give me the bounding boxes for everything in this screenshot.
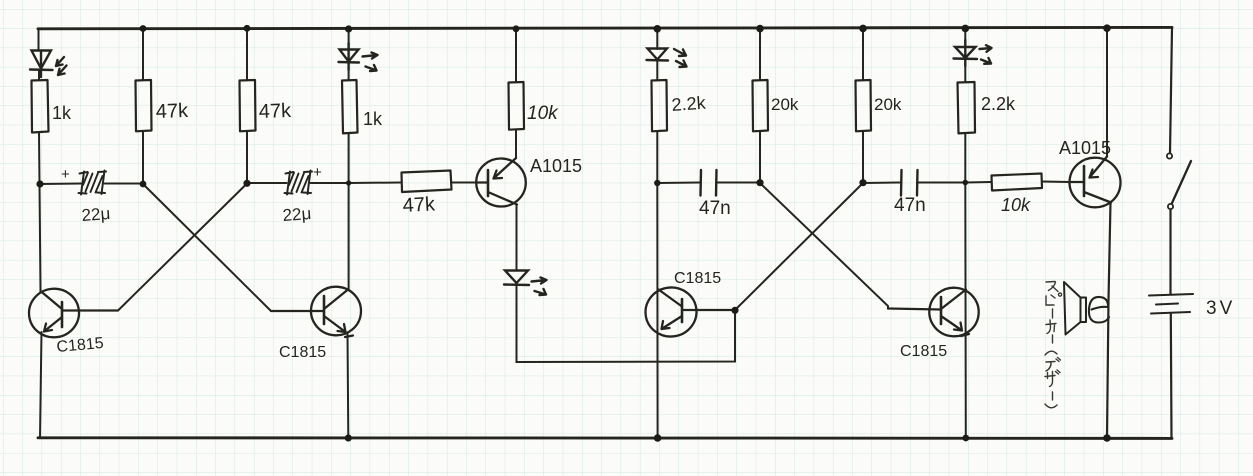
capacitor C2 22u (electrolytic, hatched) bbox=[247, 171, 349, 195]
node C (R3 / C2 / base Q1) bbox=[243, 180, 250, 187]
transistor Q2 C1815 bbox=[271, 285, 363, 338]
LED D2 (x=348) bbox=[339, 43, 378, 71]
resistor R2 47k bbox=[136, 80, 152, 131]
capacitor C4 47n bbox=[863, 170, 965, 196]
junction bottom rail x=348 bbox=[345, 434, 352, 441]
svg-text:1k: 1k bbox=[363, 109, 383, 129]
LED D1 (top left) bbox=[30, 51, 67, 78]
svg-text:1k: 1k bbox=[52, 103, 72, 123]
svg-text:20k: 20k bbox=[771, 95, 799, 114]
speaker label (vertical Japanese: スピーカー(ブザー)) bbox=[1045, 282, 1062, 408]
wire Q3 collector down bbox=[516, 205, 518, 270]
junction top rail x=516 bbox=[513, 25, 520, 32]
svg-text:10k: 10k bbox=[1001, 195, 1031, 215]
node B (R2 / C1 / base Q2) bbox=[140, 181, 147, 188]
wire Q6 collector down to bottom rail bbox=[1107, 203, 1111, 439]
junction top rail x=1107 bbox=[1103, 24, 1111, 32]
resistor R11 10k (horizontal box) bbox=[992, 174, 1043, 191]
svg-text:47k: 47k bbox=[155, 100, 189, 123]
switch S1 bbox=[1167, 153, 1191, 209]
svg-text:47n: 47n bbox=[894, 195, 926, 216]
resistor R8 20k bbox=[753, 80, 769, 131]
node H (C4 / R11 / collector Q5) bbox=[963, 180, 969, 186]
junction bottom rail x=657 bbox=[654, 434, 662, 442]
capacitor C3 47n bbox=[657, 170, 760, 196]
wire column x=760 bbox=[759, 30, 761, 184]
svg-text:2.2k: 2.2k bbox=[981, 94, 1016, 114]
svg-text:A1015: A1015 bbox=[1059, 138, 1111, 158]
wire from D3 down and right to node (735,310) bbox=[517, 285, 736, 362]
junction bottom rail x=1107 bbox=[1103, 434, 1111, 442]
node J (base Q4 / LED D3 return) bbox=[731, 307, 738, 314]
svg-text:2.2k: 2.2k bbox=[671, 93, 707, 115]
junction top rail x=863 bbox=[859, 25, 867, 33]
resistor R4 1k bbox=[342, 80, 358, 133]
wire column x=657 bbox=[656, 30, 658, 439]
resistor R1 1k (vertical box) bbox=[32, 80, 49, 133]
junction top rail x=657 bbox=[654, 25, 662, 33]
node D (C2 / R5 / collector Q2) bbox=[346, 180, 351, 185]
junction top rail x=247 bbox=[244, 25, 251, 32]
wire cross-coupling (base Q2 to node x=143) bbox=[143, 184, 271, 311]
junction top rail x=143 bbox=[140, 25, 147, 32]
svg-text:C1815: C1815 bbox=[900, 343, 947, 360]
junction top rail x=348 bbox=[345, 25, 352, 32]
wire column x=143 bbox=[142, 29, 144, 184]
speaker (buzzer) symbol bbox=[1064, 282, 1109, 335]
junction top rail x=965 bbox=[962, 25, 970, 33]
wire column x=965 bbox=[964, 30, 967, 438]
wire cross-coupling (node x=863 to base node 735,310) bbox=[735, 183, 863, 310]
svg-text:22μ: 22μ bbox=[282, 204, 312, 225]
wire left rail segments bbox=[38, 29, 40, 51]
wire right rail segments bbox=[1170, 28, 1172, 439]
transistor Q6 A1015 bbox=[1068, 156, 1122, 209]
svg-text:C1815: C1815 bbox=[279, 344, 326, 361]
transistor Q4 C1815 bbox=[643, 285, 735, 340]
wire column x=247 bbox=[246, 29, 248, 184]
wire y=183 to R11 bbox=[965, 182, 1070, 183]
wire y=183 to R5 and Q3 bbox=[349, 182, 478, 185]
svg-text:+: + bbox=[61, 166, 70, 183]
svg-text:47k: 47k bbox=[402, 193, 436, 217]
wire column x=1107 top bbox=[1106, 29, 1108, 157]
svg-text:C1815: C1815 bbox=[674, 270, 721, 287]
wire column x=516 top bbox=[515, 29, 517, 158]
resistor R10 2.2k bbox=[958, 82, 976, 133]
wire column x=863 bbox=[862, 30, 864, 184]
svg-text:A1015: A1015 bbox=[530, 156, 582, 176]
transistor Q5 C1815 bbox=[888, 285, 981, 338]
svg-text:+: + bbox=[313, 164, 322, 181]
resistor R6 10k (vertical) bbox=[509, 82, 525, 130]
resistor R5 47k (horizontal box) bbox=[402, 171, 452, 193]
resistor R7 2.2k bbox=[652, 80, 668, 131]
wire cross-coupling (base Q1 to node x=247) bbox=[118, 184, 271, 312]
wire cross-coupling (node x=760 to base Q5) bbox=[735, 183, 888, 310]
battery BT1 3V bbox=[1149, 294, 1193, 314]
svg-text:47n: 47n bbox=[699, 198, 731, 219]
svg-text:10k: 10k bbox=[527, 103, 559, 124]
junction top rail x=760 bbox=[756, 25, 764, 33]
node G (R9 / C4 / base Q4) bbox=[859, 179, 866, 186]
svg-text:22μ: 22μ bbox=[81, 204, 111, 225]
transistor Q3 A1015 bbox=[475, 157, 528, 208]
resistor R3 47k bbox=[240, 80, 256, 131]
node A (collector Q1 / C1 / R1) bbox=[36, 180, 43, 187]
node F (R8 / C3 / base Q5) bbox=[756, 179, 763, 186]
wire bottom rail bbox=[38, 436, 1172, 440]
transistor Q1 C1815 bbox=[27, 286, 118, 340]
LED D5 (x=965) bbox=[954, 40, 992, 66]
LED D4 (x=657) bbox=[647, 49, 687, 68]
svg-text:47k: 47k bbox=[258, 100, 292, 123]
resistor R9 20k bbox=[856, 80, 872, 131]
node E (R7 / C3 / collector Q4) bbox=[654, 180, 660, 186]
capacitor C1 22u (electrolytic, hatched) bbox=[40, 171, 144, 195]
wire top rail bbox=[38, 27, 1172, 28]
wire column x=348 bbox=[348, 30, 349, 438]
svg-text:20k: 20k bbox=[874, 95, 902, 114]
junction bottom rail x=965 bbox=[962, 435, 969, 442]
svg-text:3V: 3V bbox=[1206, 298, 1235, 319]
LED D3 (x=516) bbox=[504, 271, 547, 296]
